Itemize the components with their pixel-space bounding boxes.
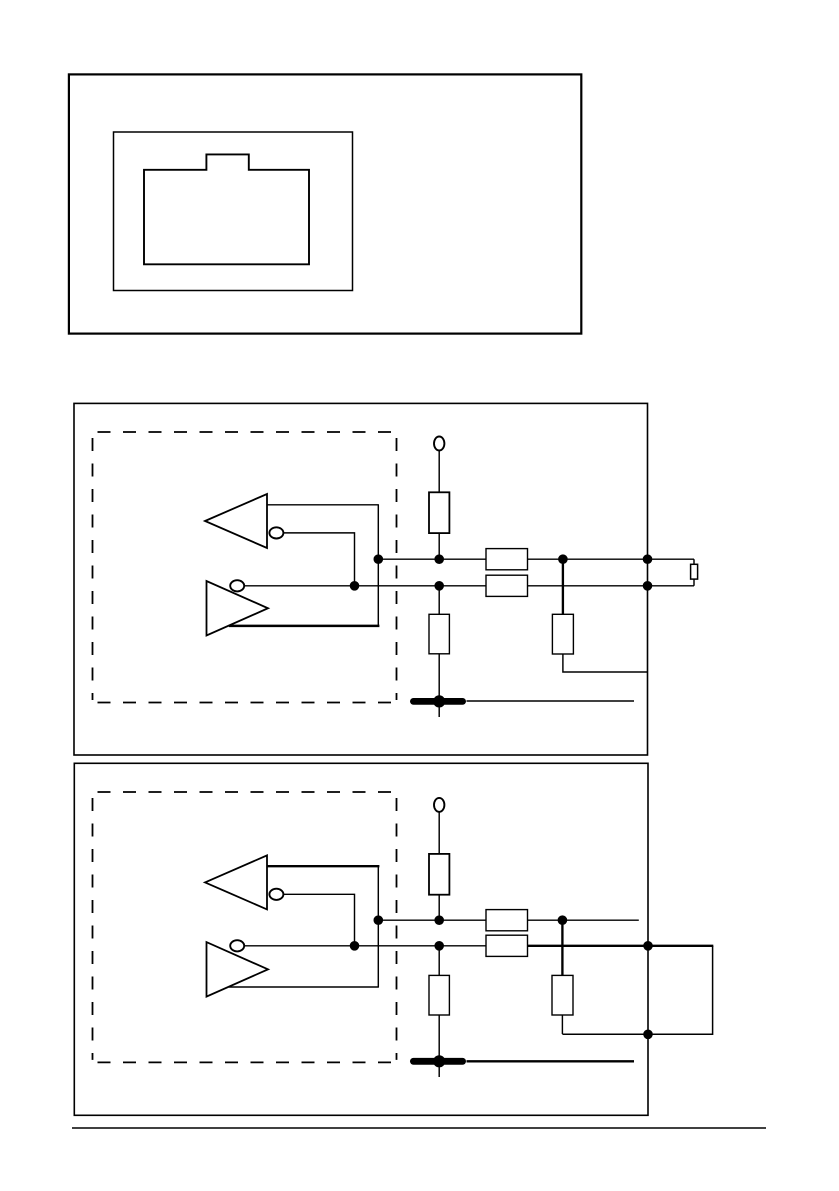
ground bar bbox=[413, 1058, 462, 1065]
resistor R6 (pull-up) bbox=[429, 854, 449, 895]
inversion bubble on driver A2 bbox=[230, 580, 244, 591]
resistor R2 (series, line B) bbox=[486, 549, 528, 570]
wire: R4 to ground bbox=[438, 654, 440, 717]
wire: line B to R5 (bold) bbox=[562, 559, 564, 614]
wire: line A (lower pair wire) bbox=[244, 585, 486, 587]
wire: line A to R4 bbox=[438, 586, 440, 615]
resistor R7 (series, line B) bbox=[486, 910, 528, 931]
wire: line A (lower pair wire) bbox=[244, 945, 486, 947]
IC boundary (dashed) bbox=[93, 792, 397, 1062]
wire: terminator to line A bbox=[693, 579, 695, 586]
connector J1 outline bbox=[114, 132, 353, 291]
junction bbox=[558, 916, 567, 925]
resistor R9 (pull-down) bbox=[429, 975, 449, 1015]
wire: ground rail (bold) bbox=[467, 1060, 635, 1062]
resistor R10 bbox=[552, 975, 573, 1015]
wire: line B right part bbox=[528, 919, 639, 921]
junction bbox=[435, 555, 444, 564]
receiver buffer A1 bbox=[205, 494, 267, 548]
ground bar bbox=[413, 698, 462, 705]
wire: receiver inverting input bbox=[283, 533, 354, 586]
junction bbox=[374, 916, 383, 925]
inversion bubble on receiver B1 bbox=[269, 889, 283, 900]
junction bbox=[559, 555, 568, 564]
junction on ground bbox=[434, 696, 445, 707]
wire: VCC to R1 bbox=[438, 451, 440, 493]
wire: R10 to loop bbox=[561, 1015, 563, 1034]
wire: R1 to line B bbox=[438, 533, 440, 559]
terminal VCC bbox=[434, 437, 444, 451]
wire: stub to terminator bbox=[693, 559, 695, 564]
resistor R4 (pull-down) bbox=[429, 614, 449, 654]
junction bbox=[435, 582, 444, 591]
wire: line A to R9 bbox=[438, 946, 440, 976]
wire: vertical tie line bbox=[377, 866, 379, 987]
wire: line B (upper pair wire) bbox=[378, 919, 486, 921]
wire: far-end loop return bbox=[562, 946, 712, 1035]
inversion bubble on driver B2 bbox=[230, 940, 244, 951]
wire: R9 to ground bbox=[438, 1015, 440, 1077]
wire: driver output bbox=[229, 986, 379, 988]
resistor R1 (pull-up) bbox=[429, 492, 449, 533]
IC boundary (dashed) bbox=[93, 432, 397, 703]
driver buffer B2 bbox=[207, 942, 269, 997]
junction bbox=[643, 582, 652, 591]
wire: receiver non-inverting input bbox=[267, 504, 379, 506]
junction bbox=[374, 555, 383, 564]
junction bbox=[644, 1030, 653, 1039]
driver buffer A2 bbox=[207, 581, 269, 636]
wire: receiver inverting input bbox=[283, 894, 354, 946]
junction bbox=[643, 555, 652, 564]
junction bbox=[350, 582, 359, 591]
wire: line B (upper pair wire) bbox=[378, 558, 486, 560]
wire: driver output bbox=[229, 625, 380, 627]
receiver buffer B1 bbox=[205, 855, 267, 909]
wire: line A right part bbox=[528, 585, 695, 587]
wire: ground rail bbox=[467, 700, 635, 702]
resistor R5 bbox=[552, 614, 573, 654]
wire: VCC to R6 bbox=[438, 812, 440, 854]
wire: R5 to cable shield bbox=[563, 654, 648, 672]
wire: R6 to line B bbox=[438, 895, 440, 921]
connector J1 jack opening bbox=[144, 154, 309, 264]
wire: vertical tie line bbox=[377, 505, 379, 626]
wire: line B right part bbox=[528, 558, 695, 560]
footer rule bbox=[72, 1127, 766, 1129]
wire: receiver non-inverting input bbox=[267, 865, 379, 867]
inversion bubble on receiver A1 bbox=[269, 527, 283, 538]
junction bbox=[435, 942, 444, 951]
junction bbox=[435, 916, 444, 925]
wire: line A right part (bold loop) bbox=[528, 945, 714, 947]
resistor R3 (series, line A) bbox=[486, 575, 528, 596]
wire: line B to R10 (bold) bbox=[561, 920, 563, 975]
junction bbox=[644, 942, 653, 951]
terminal VCC bbox=[434, 798, 444, 812]
junction bbox=[350, 942, 359, 951]
resistor RT (termination) bbox=[691, 564, 698, 579]
junction on ground bbox=[434, 1056, 445, 1067]
resistor R8 (series, line A) bbox=[486, 935, 528, 956]
